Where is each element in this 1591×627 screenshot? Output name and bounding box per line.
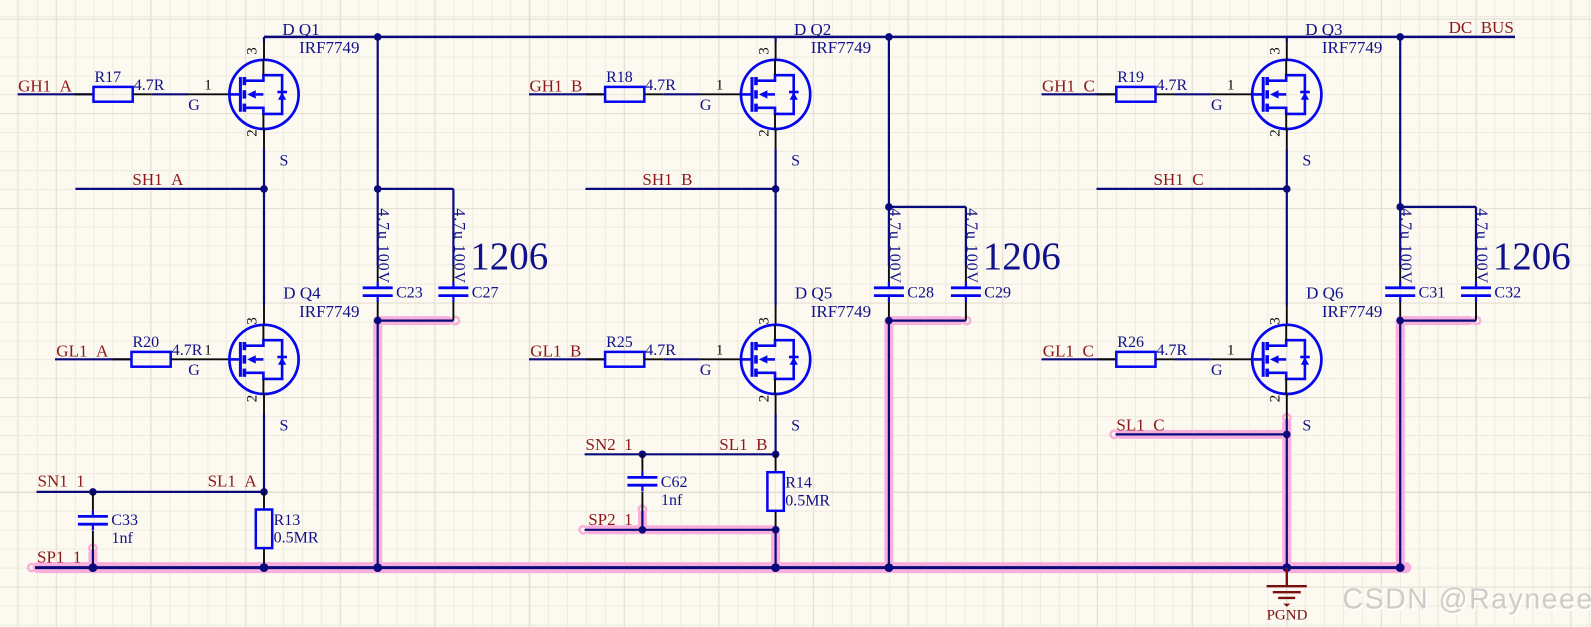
svg-text:4.7R: 4.7R [645, 77, 676, 94]
wire cap leg down to bottom rail at x=378 [377, 321, 379, 568]
wire SH1_B [585, 188, 775, 190]
transistor Q2 (IRF7749 N-MOSFET) [741, 60, 810, 129]
svg-text:4.7R: 4.7R [1157, 342, 1188, 359]
junction SH1_C at source [1283, 185, 1291, 193]
wire DC bus branch at x=378 [377, 37, 379, 266]
wire source of Q5 to SL1_B [775, 394, 777, 414]
svg-text:R25: R25 [606, 334, 633, 351]
svg-text:3: 3 [245, 47, 261, 55]
svg-text:4.7R: 4.7R [172, 342, 203, 359]
svg-text:IRF7749: IRF7749 [1322, 38, 1382, 57]
svg-text:1: 1 [1227, 343, 1235, 359]
pin Q6.1 (gate) [1211, 358, 1252, 360]
svg-text:C62: C62 [661, 474, 688, 491]
pin R18.1 [586, 93, 605, 95]
svg-text:IRF7749: IRF7749 [1322, 302, 1382, 321]
junction cap bottom at x=1400 [1396, 317, 1404, 325]
svg-text:C31: C31 [1419, 284, 1446, 301]
pin R25.2 and wire to gate [644, 358, 663, 360]
svg-text:D Q1: D Q1 [282, 20, 319, 39]
wire SP1_1 / PGND bottom rail [35, 566, 1400, 569]
wire C29 bottom to C28 bottom [889, 320, 966, 322]
hook wire to C32 branch [1396, 203, 1404, 211]
wire source of Q6 to SL1_C [1286, 394, 1288, 419]
svg-text:2: 2 [245, 129, 261, 137]
pin R19.1 [1097, 93, 1116, 95]
svg-text:R17: R17 [95, 69, 122, 86]
pin R20.2 and wire to gate [171, 358, 190, 360]
svg-text:IRF7749: IRF7749 [299, 302, 359, 321]
svg-text:4.7u 100V: 4.7u 100V [1397, 208, 1414, 284]
svg-text:1nf: 1nf [112, 530, 134, 547]
pin R17.1 [75, 93, 94, 95]
pin R25.1 [586, 358, 605, 360]
resistor R20 4.7R [132, 334, 203, 367]
svg-text:SH1 C: SH1 C [1154, 170, 1204, 189]
wire drain of Q3 to DC bus [1286, 37, 1288, 42]
capacitor C33 1nf [92, 492, 94, 510]
pin R20.1 [113, 358, 132, 360]
svg-text:1206: 1206 [983, 235, 1061, 278]
junction SL1_A at Q4 source [260, 488, 268, 496]
wire SP2_1 down to bottom rail [774, 530, 776, 568]
svg-text:G: G [1211, 362, 1223, 379]
wire GL1_C to R26 [1042, 358, 1117, 360]
junction cap bottom at x=378 [374, 317, 382, 325]
svg-text:D Q5: D Q5 [795, 284, 832, 303]
svg-text:G: G [188, 97, 200, 114]
wire C27 bottom to C23 bottom [378, 320, 454, 322]
junction DC bus at x=889 [885, 33, 893, 41]
svg-text:4.7u 100V: 4.7u 100V [963, 208, 980, 284]
wire source of Q1 to SH1_A [263, 129, 265, 149]
svg-text:GL1 B: GL1 B [530, 342, 581, 361]
svg-text:S: S [1302, 152, 1311, 169]
wire C32 bottom to C31 bottom [1400, 320, 1476, 322]
svg-text:C27: C27 [472, 284, 499, 301]
svg-text:1: 1 [1227, 78, 1235, 94]
svg-text:3: 3 [1268, 317, 1284, 325]
svg-text:S: S [280, 417, 289, 434]
pin Q5.1 (gate) [700, 358, 741, 360]
pin R18.2 and wire to gate [644, 93, 663, 95]
junction SH1_B at source [772, 185, 780, 193]
pin R19.2 and wire to gate [1156, 93, 1175, 95]
svg-text:SP1 1: SP1 1 [37, 548, 81, 567]
transistor Q4 (IRF7749 N-MOSFET) [229, 325, 298, 394]
wire GH1_C to R19 [1042, 93, 1117, 95]
wire drain of Q2 to DC bus [774, 37, 776, 42]
wire source of Q2 to SH1_B [775, 129, 777, 149]
svg-text:C28: C28 [907, 284, 934, 301]
transistor Q5 (IRF7749 N-MOSFET) [741, 325, 810, 394]
svg-text:4.7u 100V: 4.7u 100V [450, 208, 467, 284]
resistor R17 4.7R [94, 69, 165, 102]
junction SP2_1 at C62 [639, 526, 647, 534]
svg-text:1: 1 [204, 343, 212, 359]
svg-text:3: 3 [1268, 47, 1284, 55]
svg-text:SL1 A: SL1 A [208, 472, 258, 491]
svg-text:DC BUS: DC BUS [1449, 18, 1514, 37]
svg-text:2: 2 [756, 395, 772, 403]
svg-text:C33: C33 [111, 512, 138, 529]
resistor R13 pins [263, 492, 265, 510]
wire GH1_A to R17 [18, 93, 94, 95]
svg-text:D Q2: D Q2 [794, 20, 831, 39]
svg-text:4.7u 100V: 4.7u 100V [375, 208, 392, 284]
svg-text:C29: C29 [984, 284, 1011, 301]
svg-text:SP2 1: SP2 1 [588, 510, 632, 529]
svg-text:2: 2 [1268, 129, 1284, 137]
pin Q4.1 (gate) [188, 358, 229, 360]
junction SH1_A at source [260, 185, 268, 193]
ground PGND power port [1267, 568, 1307, 607]
svg-text:3: 3 [756, 317, 772, 325]
svg-text:D Q3: D Q3 [1305, 20, 1342, 39]
svg-text:R18: R18 [606, 69, 633, 86]
svg-text:SL1 C: SL1 C [1116, 415, 1164, 434]
svg-text:CSDN @Rayneeeee: CSDN @Rayneeeee [1343, 584, 1591, 616]
svg-text:R19: R19 [1117, 69, 1144, 86]
svg-text:2: 2 [756, 129, 772, 137]
svg-text:S: S [791, 152, 800, 169]
capacitor C23 pins [377, 266, 379, 283]
svg-text:1206: 1206 [470, 235, 548, 278]
wire GL1_A to R20 [55, 358, 132, 360]
wire source of Q3 to SH1_C [1286, 129, 1288, 149]
junction bottom rail at R14 leg [771, 563, 780, 572]
wire cap leg down to bottom rail at x=889 [888, 321, 890, 568]
svg-text:1: 1 [716, 78, 724, 94]
svg-text:D Q6: D Q6 [1306, 284, 1343, 303]
svg-text:0.5MR: 0.5MR [274, 530, 319, 547]
svg-text:S: S [1302, 417, 1311, 434]
svg-text:IRF7749: IRF7749 [299, 38, 359, 57]
pink net end markers [28, 317, 1480, 571]
junction SL1_C at Q6 source [1283, 431, 1291, 439]
highlighted net SP1/PGND (pink overlay) [38, 321, 1469, 568]
resistor R18 4.7R [605, 69, 676, 102]
hook wire to C27 branch [374, 185, 382, 193]
wire cap leg down to bottom rail at x=1400 [1399, 321, 1401, 568]
junction bottom rail at PGND [1282, 563, 1291, 572]
resistor R14 pins [775, 454, 777, 472]
junction SN1_1 at C33 [89, 488, 97, 496]
junction bottom rail at x=378 [373, 563, 382, 572]
wire SH1_A [75, 188, 264, 190]
pin R26.1 [1097, 358, 1116, 360]
svg-text:SN1 1: SN1 1 [38, 472, 85, 491]
svg-text:G: G [700, 97, 712, 114]
svg-text:G: G [1211, 97, 1223, 114]
svg-text:1: 1 [716, 343, 724, 359]
wire DC bus top rail [264, 36, 1515, 39]
wire SP2_1 row [585, 529, 776, 531]
svg-text:SN2 1: SN2 1 [586, 435, 633, 454]
resistor R13 0.5MR [256, 510, 319, 549]
wire DC bus branch at x=1400 [1399, 37, 1401, 266]
junction DC bus at x=378 [374, 33, 382, 41]
svg-text:SL1 B: SL1 B [719, 435, 767, 454]
svg-text:R20: R20 [133, 334, 160, 351]
wire GH1_B to R18 [529, 93, 605, 95]
pin Q3.1 (gate) [1211, 93, 1252, 95]
wire SL1_C row [1116, 433, 1287, 435]
capacitor C28 pins [888, 266, 890, 283]
wire SH1_A down to drain of Q4 [263, 189, 265, 305]
resistor R19 4.7R [1116, 69, 1187, 102]
transistor Q3 (IRF7749 N-MOSFET) [1252, 60, 1321, 129]
resistor R14 0.5MR [767, 472, 830, 511]
svg-text:1nf: 1nf [661, 492, 683, 509]
svg-text:GH1 C: GH1 C [1042, 77, 1095, 96]
junction SL1_B at Q5 source [772, 451, 780, 459]
svg-text:G: G [700, 362, 712, 379]
svg-text:S: S [791, 417, 800, 434]
wire DC bus branch at x=889 [888, 37, 890, 266]
wire SL1_C down to bottom rail [1286, 434, 1288, 567]
transistor Q1 (IRF7749 N-MOSFET) [229, 60, 298, 129]
svg-text:R26: R26 [1117, 334, 1144, 351]
pin Q2.1 (gate) [700, 93, 741, 95]
svg-text:3: 3 [756, 47, 772, 55]
resistor R25 4.7R [605, 334, 676, 367]
transistor Q6 (IRF7749 N-MOSFET) [1252, 325, 1321, 394]
wire drain of Q1 to DC bus [263, 37, 265, 42]
svg-text:4.7u 100V: 4.7u 100V [886, 208, 903, 284]
resistor R26 4.7R [1116, 334, 1187, 367]
capacitor C62 1nf [641, 454, 643, 471]
svg-text:4.7R: 4.7R [134, 77, 165, 94]
svg-text:GH1 A: GH1 A [18, 77, 73, 96]
junction bottom rail at x=1400 [1396, 563, 1405, 572]
wire source of Q4 to SL1_A [263, 394, 265, 414]
junction SP1_1 at R13 [260, 563, 269, 572]
pin Q1.1 (gate) [188, 93, 229, 95]
svg-text:2: 2 [245, 395, 261, 403]
svg-text:0.5MR: 0.5MR [785, 492, 830, 509]
wire SH1_C [1097, 188, 1287, 190]
svg-text:SH1 A: SH1 A [132, 170, 184, 189]
svg-text:G: G [188, 362, 200, 379]
svg-text:4.7R: 4.7R [645, 342, 676, 359]
capacitor C31 pins [1399, 266, 1401, 283]
pin R26.2 and wire to gate [1156, 358, 1175, 360]
junction SP2_1 at R14 [772, 526, 780, 534]
svg-text:1206: 1206 [1493, 235, 1571, 278]
svg-text:C32: C32 [1494, 284, 1521, 301]
wire SH1_B down to drain of Q5 [774, 189, 776, 305]
svg-text:S: S [280, 152, 289, 169]
wire SN1_1 row [37, 491, 265, 493]
svg-text:C23: C23 [396, 284, 423, 301]
svg-text:IRF7749: IRF7749 [811, 38, 871, 57]
svg-text:3: 3 [245, 317, 261, 325]
junction cap bottom at x=889 [885, 317, 893, 325]
wire SN2_1 row [585, 453, 776, 455]
svg-text:R13: R13 [274, 512, 301, 529]
svg-text:SH1 B: SH1 B [642, 170, 692, 189]
pin R17.2 and wire to gate [133, 93, 152, 95]
junction bottom rail at x=889 [885, 563, 894, 572]
svg-text:GL1 A: GL1 A [56, 342, 109, 361]
junction DC bus at x=1400 [1396, 33, 1404, 41]
svg-text:IRF7749: IRF7749 [811, 302, 871, 321]
junction SP1_1 at C33 [89, 563, 98, 572]
wire GL1_B to R25 [529, 358, 605, 360]
svg-text:R14: R14 [785, 475, 812, 492]
svg-text:GL1 C: GL1 C [1043, 342, 1094, 361]
svg-text:1: 1 [204, 78, 212, 94]
svg-text:D Q4: D Q4 [283, 284, 321, 303]
svg-text:2: 2 [1268, 395, 1284, 403]
svg-text:4.7u 100V: 4.7u 100V [1473, 208, 1490, 284]
svg-text:PGND: PGND [1267, 608, 1308, 624]
svg-text:GH1 B: GH1 B [530, 77, 583, 96]
svg-text:4.7R: 4.7R [1157, 77, 1188, 94]
wire SH1_C down to drain of Q6 [1286, 189, 1288, 305]
hook wire to C29 branch [885, 203, 893, 211]
junction SN2_1 at C62 [639, 451, 647, 459]
watermark CSDN @Rayneeee [1343, 584, 1591, 618]
